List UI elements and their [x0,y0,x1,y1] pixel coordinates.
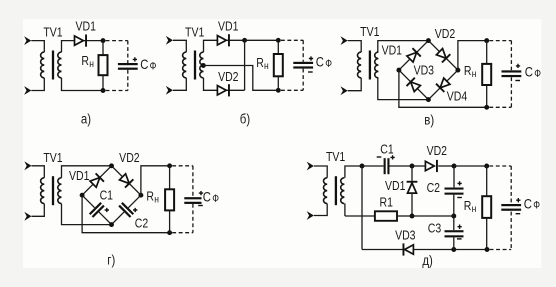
svg-text:С: С [140,56,148,72]
transformer TV1 (a) secondary winding [58,52,62,78]
wire RH top lead (g) [169,166,171,190]
wire cathode bus vertical (b) [244,40,246,90]
node RH top (d) [484,164,489,169]
wire dashed Cf vertical bottom (g) [192,204,194,233]
transformer TV1 (b) core [194,51,196,80]
input arrow bottom (a) [24,86,31,95]
node centre tap (b) [201,63,206,68]
node RH top (g) [167,163,172,168]
diode VD1 (v) [407,52,417,62]
svg-text:VD2: VD2 [218,69,238,84]
input arrow bottom (d) [307,211,314,220]
wire VD3 to C3 node (d) [413,249,453,251]
svg-text:VD1: VD1 [385,178,405,193]
svg-text:R1: R1 [379,194,392,209]
svg-text:С: С [203,188,211,204]
wire primary loop (b) [173,40,186,90]
svg-text:д): д) [422,253,433,268]
transformer TV1 (v) secondary winding [375,52,379,78]
capacitor C1 (g) [82,195,95,208]
resistor RH (a) [99,55,108,75]
polarity - Cf (b) [308,71,313,73]
transformer TV1 (g) primary winding [41,178,45,204]
polarity + Cf (d) [516,198,520,202]
wire dashed bottom to Cf (g) [172,232,193,234]
wire top rail to C1 (d) [362,165,384,167]
wire primary loop (g) [32,166,45,217]
polarity - C3 (d) [457,238,462,240]
capacitor Cf (d) [501,204,521,206]
wire RH top lead (v) [486,41,488,64]
wire RH bottom lead (d) [486,218,488,250]
input arrow top (v) [341,36,348,45]
svg-text:а): а) [81,112,91,127]
svg-text:C1: C1 [380,141,393,156]
capacitor Cf (b) [293,62,313,64]
wire top rail to RH (b) [245,39,279,41]
wire C2 bottom lead (d) [453,195,455,216]
wire dashed top to Cf (v) [489,40,511,42]
wire right node to top rail (g) [141,166,170,195]
wire dashed Cf vertical top (g) [192,166,194,197]
wire secondary bottom to bridge bottom node (g) [62,204,112,225]
svg-text:VD3: VD3 [395,227,416,242]
svg-text:C2: C2 [135,215,148,230]
input arrow top (b) [166,36,173,45]
node bridge left (g) [80,193,85,198]
wire bridge edge VD1 (g) [82,166,111,195]
wire secondary bottom (a) [62,78,104,91]
diode VD1 (a) [75,36,84,45]
transformer TV1 (a) primary winding [41,52,45,78]
polarity + C3 (d) [457,225,461,229]
svg-text:R: R [464,63,472,78]
node C2/C3 mid (d) [451,214,456,219]
wire C3 bottom lead (d) [453,237,455,249]
polarity - C1 (d) [377,156,382,158]
wire VD1 node to VD2 (d) [412,165,425,167]
wire dashed top to Cf (g) [172,165,193,167]
node C2 top (d) [452,164,457,169]
wire dashed top to Cf (b) [281,39,303,41]
wire RH bottom lead (a) [102,75,104,90]
svg-text:н: н [89,58,94,70]
svg-text:н: н [154,194,159,206]
capacitor C2 (g) [112,212,125,225]
wire RH top lead (d) [486,166,488,196]
svg-text:R: R [256,55,264,70]
wire bridge edge VD2 (v) [428,41,458,71]
wire dashed top to Cf (d) [489,165,511,167]
wire VD2 to C2 node (d) [438,165,454,167]
node bridge right (v) [455,68,460,73]
transformer TV1 (a) core [52,51,54,80]
diode VD2 (g) [119,174,129,184]
transformer TV1 (g) secondary winding [58,178,62,204]
wire bottom rail to RH (d) [454,249,487,251]
wire left node to bottom rail (g) [82,195,170,233]
node C3 bottom (d) [451,247,456,252]
diode VD3 (d) [403,243,405,255]
wire dashed Cf vertical top (a) [127,41,129,63]
resistor RH (g) [165,189,174,210]
wire dashed bottom to Cf (d) [490,249,512,251]
input arrow bottom (v) [341,86,348,95]
svg-text:Ф: Ф [534,68,541,80]
node bridge top (g) [109,163,114,168]
wire primary loop (a) [31,41,44,91]
wire secondary bottom through VD2 (b) [204,78,245,90]
wire RH bottom lead (v) [486,85,488,107]
svg-text:н: н [472,203,477,215]
wire bottom rail to VD3 (d) [362,249,403,251]
svg-text:TV1: TV1 [43,150,62,165]
svg-text:TV1: TV1 [185,24,204,39]
polarity - C2 (d) [457,197,462,199]
svg-text:VD1: VD1 [69,168,89,183]
node RH top (v) [484,38,489,43]
wire RH top lead (b) [277,40,279,54]
wire secondary top to bus (d) [345,166,362,178]
wire secondary top to bridge top node (g) [62,166,112,178]
wire dashed bottom to Cf (a) [106,90,128,92]
svg-text:Ф: Ф [533,200,540,212]
svg-text:н: н [264,60,269,72]
wire secondary top through VD1 (b) [204,40,245,52]
svg-text:С: С [316,54,324,70]
svg-text:г): г) [107,253,115,268]
wire middle rail to R1 (d) [345,215,375,217]
node VD1 top (d) [410,164,415,169]
svg-text:R: R [81,53,89,68]
wire bridge edge VD4 (v) [428,70,458,100]
wire dashed Cf vertical bottom (d) [510,212,512,250]
polarity + Cf (a) [133,57,137,61]
svg-text:VD1: VD1 [75,18,95,33]
diode VD3 (v) [411,82,421,92]
wire C3 top lead (d) [453,216,455,230]
polarity + Cf (b) [309,56,313,60]
svg-text:С: С [524,195,532,211]
svg-text:Ф: Ф [325,58,332,70]
capacitor Cf (a) [118,63,138,65]
svg-text:R: R [146,188,154,203]
node RH bottom (v) [484,105,489,110]
wire C2 top lead (d) [453,166,455,187]
svg-text:VD2: VD2 [435,26,455,41]
svg-text:C2: C2 [427,180,440,195]
node RH bottom (d) [485,247,490,252]
wire RH bottom lead (b) [277,76,279,90]
wire primary loop (d) [314,166,327,216]
svg-text:Ф: Ф [212,193,219,205]
resistor RH (b) [274,54,283,76]
wire dashed Cf vertical bottom (b) [302,69,304,91]
node bridge top (v) [426,38,431,43]
polarity + C1 (g) [105,208,109,212]
polarity - Cf (d) [516,213,521,215]
node RH top (b) [276,38,281,43]
node bottom junction (a) [101,88,106,93]
wire bridge edge VD3 (v) [399,70,429,100]
diode VD2 (d) [425,161,434,170]
node VD1 bottom (d) [410,214,415,219]
wire dashed bottom to Cf (v) [489,106,511,108]
wire RH top lead (a) [102,41,104,56]
wire bridge edge VD2 (g) [112,166,141,195]
node RH bottom (b) [276,88,281,93]
wire dashed Cf vertical bottom (a) [127,70,129,91]
polarity + Cf (g) [199,191,203,195]
node top junction (a) [101,38,106,43]
diode VD4 (v) [440,78,450,88]
node bridge bottom (g) [109,222,114,227]
input arrow top (a) [24,36,31,45]
wire dashed Cf vertical top (b) [302,40,304,62]
svg-text:TV1: TV1 [360,24,379,39]
wire C2 node to RH (d) [454,165,487,167]
diode VD1 (d) [411,166,413,181]
node bridge right (g) [138,193,143,198]
diode VD2 (b) [217,86,226,95]
transformer TV1 (d) core [335,176,337,205]
svg-text:в): в) [424,113,434,128]
capacitor Cf (v) [502,70,522,72]
input arrow top (g) [24,161,31,170]
svg-text:C3: C3 [428,220,442,235]
wire dashed Cf vertical top (d) [510,166,512,203]
wire C1 to VD1 node (d) [390,165,413,167]
svg-text:б): б) [240,112,250,127]
wire bus vertical (d) [361,166,363,250]
transformer TV1 (d) secondary winding [341,178,345,204]
wire bridge edge VD1 (v) [399,41,429,71]
wire secondary top to node A (a) [62,41,104,53]
polarity - Cf (v) [515,80,520,82]
resistor RH (v) [482,64,491,85]
wire R1 to VD1 bottom (d) [397,215,412,217]
wire secondary top to bridge top node (v) [378,41,429,53]
diode VD1 (b) [217,36,226,45]
resistor RH (d) [482,196,491,218]
wire RH bottom lead (g) [169,210,171,232]
wire dashed bottom to Cf (b) [281,89,303,91]
node VD1 cathode bus top (b) [242,38,247,43]
input arrow bottom (b) [166,86,173,95]
node bridge bottom (v) [426,97,431,102]
wire right node to top rail (v) [458,41,487,71]
polarity + C2 (g) [133,208,137,212]
svg-text:TV1: TV1 [326,149,345,164]
transformer TV1 (b) primary winding [183,52,187,78]
transformer TV1 (g) core [52,176,54,205]
svg-text:VD4: VD4 [447,88,468,103]
input arrow bottom (g) [24,212,31,221]
node RH bottom (g) [167,230,172,235]
capacitor Cf (g) [184,197,201,199]
node secondary top / bus (d) [360,164,365,169]
wire centre tap rail (b) [203,66,278,91]
svg-text:R: R [464,198,472,213]
svg-text:TV1: TV1 [43,25,62,40]
wire dashed top to Cf (a) [106,40,128,42]
diode VD2 (v) [436,49,446,59]
transformer TV1 (b) secondary winding [200,52,204,78]
svg-text:C1: C1 [100,187,113,202]
svg-text:С: С [525,63,533,79]
svg-text:VD3: VD3 [414,62,435,77]
wire primary loop (v) [348,41,362,91]
node bridge left (v) [396,68,401,73]
svg-text:VD2: VD2 [427,143,447,158]
svg-text:VD1: VD1 [218,18,238,33]
wire secondary bottom lead (d) [344,204,346,216]
polarity + Cf (v) [516,64,520,68]
polarity + C2 (d) [457,181,461,185]
input arrow top (d) [307,162,314,171]
resistor R1 (d) [375,211,397,221]
wire VD1 bottom to C2 bus (d) [412,215,454,217]
svg-text:н: н [472,68,477,80]
wire left node to bottom rail (v) [399,70,487,107]
capacitor C3 (d) [445,230,464,232]
wire secondary bottom to bridge bottom node (v) [378,78,429,100]
svg-text:VD2: VD2 [119,150,139,165]
svg-text:VD1: VD1 [382,42,402,57]
transformer TV1 (v) core [369,51,371,80]
svg-text:Ф: Ф [150,61,157,73]
diode VD1 (g) [90,178,100,188]
polarity - Cf (g) [198,205,203,207]
wire dashed Cf vertical top (v) [510,41,512,71]
capacitor C1 (d) [384,158,386,174]
transformer TV1 (d) primary winding [324,178,328,204]
polarity + C1 (d) [390,155,394,159]
wire dashed Cf vertical bottom (v) [510,77,512,107]
capacitor C2 (d) [445,188,464,190]
transformer TV1 (v) primary winding [358,52,362,78]
